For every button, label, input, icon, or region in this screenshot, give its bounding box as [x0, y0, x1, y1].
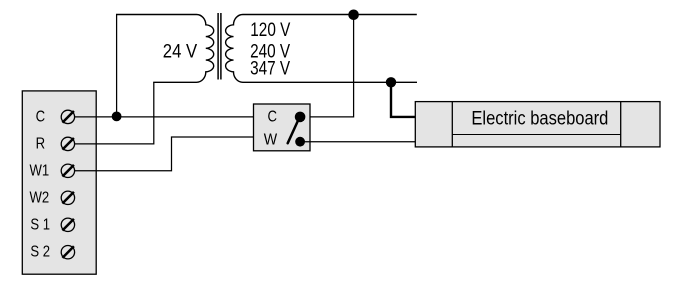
switch contact W (bottom)	[295, 137, 305, 147]
terminal block TB1 (thermostat)	[22, 91, 96, 274]
baseboard left divider	[451, 102, 453, 147]
svg-text:S 1: S 1	[30, 216, 50, 233]
svg-text:R: R	[36, 136, 46, 153]
wire W1: terminal W1 right, up, right to switch box	[75, 137, 254, 171]
baseboard horizontal divider	[452, 134, 620, 136]
transformer T1 core	[218, 13, 221, 80]
terminal S1 screw	[61, 218, 74, 231]
junction dot on C wire	[112, 112, 122, 122]
transformer T1 secondary winding with taps	[226, 15, 417, 83]
svg-text:347 V: 347 V	[250, 59, 290, 80]
terminal W1 screw	[61, 164, 74, 177]
switch lever	[288, 120, 299, 144]
wire: top tap down and left to switch C contact	[300, 15, 354, 117]
wire R row: terminal R right then up	[75, 82, 154, 144]
terminal R screw	[61, 137, 74, 150]
terminal C screw	[61, 110, 74, 123]
baseboard right divider	[620, 102, 622, 147]
svg-text:24 V: 24 V	[163, 41, 198, 62]
junction dot on secondary bottom lead	[386, 77, 396, 87]
svg-text:W1: W1	[29, 162, 49, 179]
switch contact C (top)	[295, 112, 306, 123]
wire: C junction up to transformer primary	[116, 15, 118, 117]
svg-text:S 2: S 2	[30, 243, 50, 260]
terminal W2 screw	[61, 191, 74, 204]
electric baseboard body	[415, 102, 660, 147]
svg-text:C: C	[268, 109, 278, 126]
wire: switch W contact to baseboard	[300, 141, 415, 143]
svg-text:W: W	[264, 132, 278, 149]
terminal S2 screw	[61, 246, 74, 259]
svg-text:W2: W2	[29, 189, 49, 206]
svg-text:Electric baseboard: Electric baseboard	[471, 109, 608, 130]
transformer T1 primary winding (24 V)	[116, 15, 214, 83]
switch box S1	[254, 104, 311, 151]
wire C row: terminal C to switch box	[75, 116, 254, 118]
svg-text:C: C	[36, 108, 46, 125]
wire: bottom tap down and right to baseboard (thick)	[391, 82, 415, 117]
svg-text:120 V: 120 V	[250, 20, 290, 41]
junction dot on secondary top lead	[348, 10, 359, 21]
